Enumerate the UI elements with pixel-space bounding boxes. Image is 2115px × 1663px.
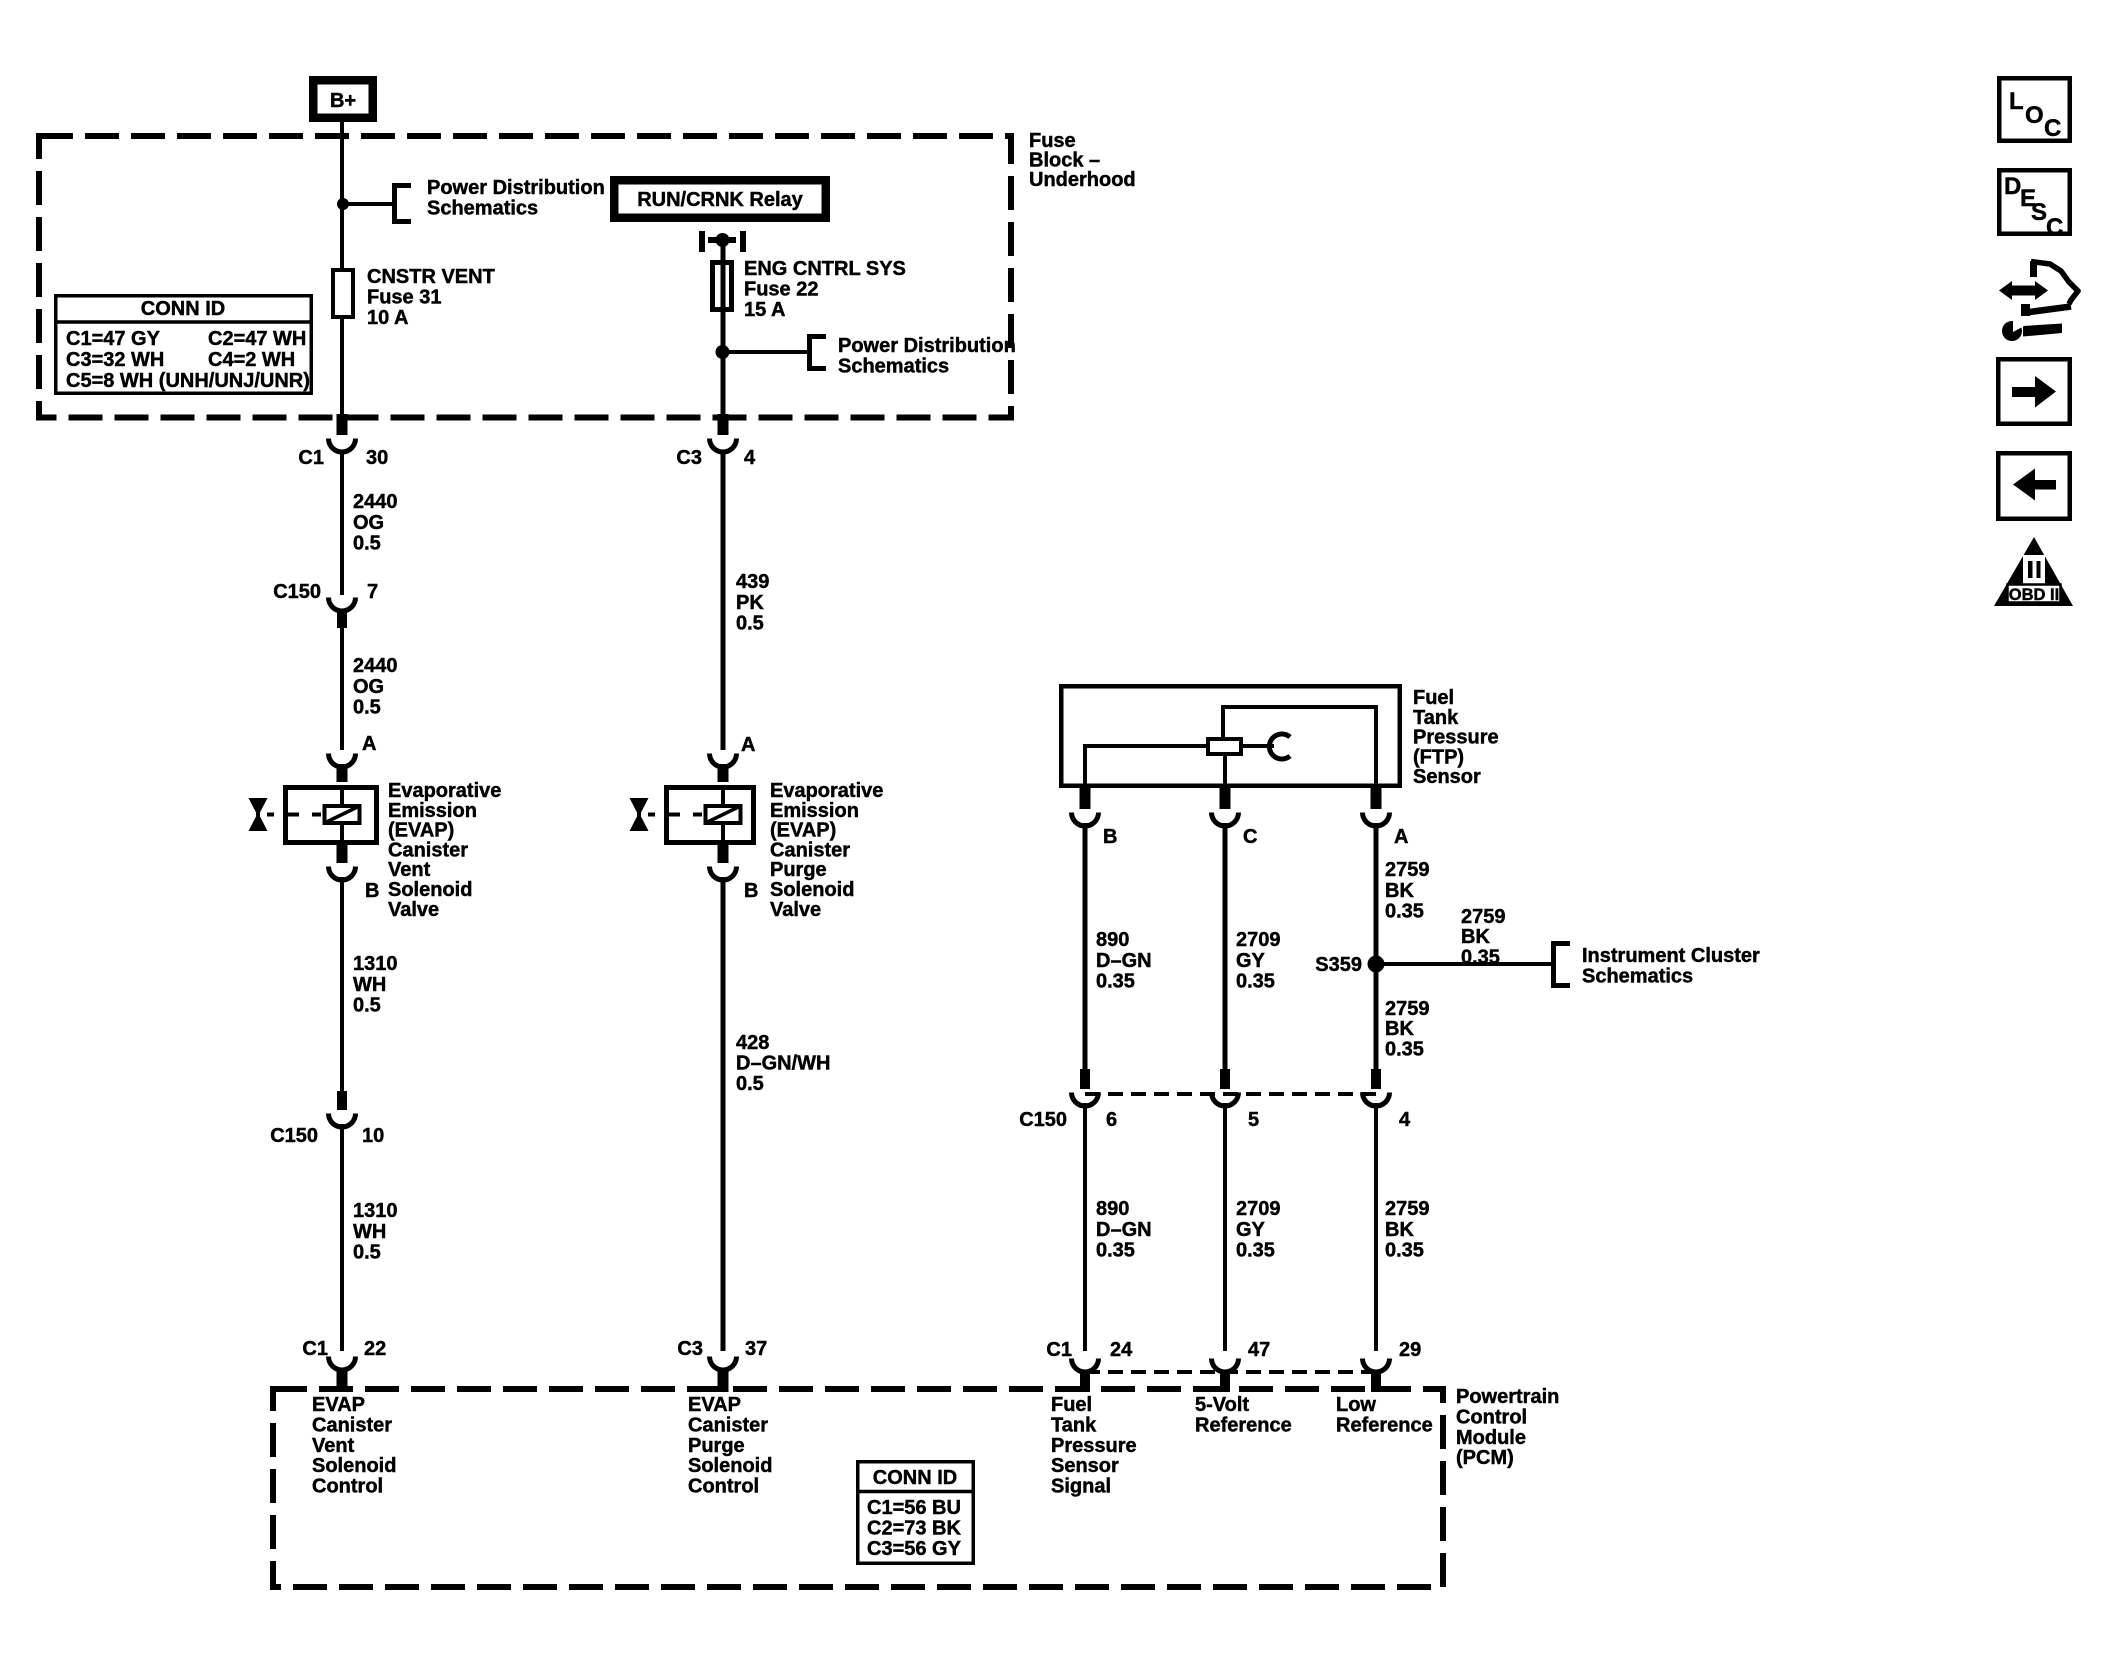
svg-text:439: 439 [736, 571, 769, 593]
svg-text:C3: C3 [677, 1338, 703, 1360]
svg-text:B: B [744, 880, 758, 902]
svg-text:WH: WH [353, 974, 386, 996]
svg-text:D–GN/WH: D–GN/WH [736, 1053, 830, 1075]
svg-text:Control: Control [688, 1476, 759, 1498]
svg-text:Canister: Canister [770, 839, 850, 861]
svg-text:C1=47 GY: C1=47 GY [66, 328, 161, 350]
svg-text:Low: Low [1336, 1394, 1376, 1416]
svg-text:BK: BK [1461, 926, 1490, 948]
svg-text:OBD II: OBD II [2009, 586, 2059, 604]
svg-text:0.5: 0.5 [736, 613, 764, 635]
svg-text:Tank: Tank [1051, 1414, 1097, 1436]
svg-text:Powertrain: Powertrain [1456, 1386, 1559, 1408]
svg-text:CNSTR VENT: CNSTR VENT [367, 266, 495, 288]
svg-text:0.35: 0.35 [1461, 946, 1500, 968]
svg-text:2440: 2440 [353, 491, 398, 513]
svg-text:C1: C1 [1046, 1339, 1072, 1361]
svg-text:10: 10 [362, 1125, 384, 1147]
svg-text:Purge: Purge [770, 859, 827, 881]
svg-text:30: 30 [366, 447, 388, 469]
svg-text:2440: 2440 [353, 655, 398, 677]
svg-text:1310: 1310 [353, 953, 398, 975]
svg-text:Underhood: Underhood [1029, 169, 1136, 191]
svg-text:D–GN: D–GN [1096, 1219, 1152, 1241]
svg-text:Control: Control [1456, 1406, 1527, 1428]
svg-text:Reference: Reference [1336, 1414, 1433, 1436]
svg-text:(FTP): (FTP) [1413, 746, 1464, 768]
svg-text:Sensor: Sensor [1413, 766, 1481, 788]
svg-text:0.35: 0.35 [1385, 901, 1424, 923]
svg-text:10 A: 10 A [367, 307, 409, 329]
svg-text:Evaporative: Evaporative [388, 780, 501, 802]
svg-text:Evaporative: Evaporative [770, 780, 883, 802]
svg-text:C2=47 WH: C2=47 WH [208, 328, 306, 350]
svg-text:C: C [1243, 826, 1257, 848]
svg-text:Valve: Valve [770, 899, 821, 921]
svg-text:4: 4 [744, 447, 756, 469]
svg-text:Fuel: Fuel [1413, 687, 1454, 709]
svg-text:4: 4 [1399, 1109, 1411, 1131]
svg-text:Signal: Signal [1051, 1476, 1111, 1498]
svg-text:BK: BK [1385, 880, 1414, 902]
svg-text:D–GN: D–GN [1096, 950, 1152, 972]
svg-text:0.35: 0.35 [1385, 1038, 1424, 1060]
svg-text:C3: C3 [676, 447, 702, 469]
svg-text:Module: Module [1456, 1427, 1526, 1449]
svg-text:CONN ID: CONN ID [873, 1467, 957, 1489]
svg-text:Schematics: Schematics [838, 355, 949, 377]
svg-text:S359: S359 [1315, 954, 1362, 976]
svg-text:Solenoid: Solenoid [688, 1455, 772, 1477]
svg-text:Schematics: Schematics [1582, 965, 1693, 987]
svg-text:Pressure: Pressure [1413, 727, 1499, 749]
svg-text:CONN ID: CONN ID [141, 298, 225, 320]
svg-text:C4=2 WH: C4=2 WH [208, 349, 295, 371]
svg-text:Emission: Emission [770, 800, 859, 822]
svg-text:428: 428 [736, 1032, 769, 1054]
svg-text:0.5: 0.5 [736, 1073, 764, 1095]
svg-text:C3=32 WH: C3=32 WH [66, 349, 164, 371]
svg-text:37: 37 [745, 1338, 767, 1360]
svg-text:B: B [365, 880, 379, 902]
svg-text:Instrument Cluster: Instrument Cluster [1582, 945, 1760, 967]
svg-text:Canister: Canister [688, 1414, 768, 1436]
svg-text:Fuse 31: Fuse 31 [367, 286, 441, 308]
svg-text:(EVAP): (EVAP) [770, 820, 836, 842]
svg-text:L: L [2009, 88, 2024, 115]
svg-text:Canister: Canister [312, 1414, 392, 1436]
svg-text:24: 24 [1110, 1339, 1133, 1361]
svg-text:BK: BK [1385, 1018, 1414, 1040]
svg-text:890: 890 [1096, 929, 1129, 951]
svg-text:0.35: 0.35 [1096, 1240, 1135, 1262]
svg-text:Solenoid: Solenoid [388, 879, 472, 901]
svg-text:C2=73 BK: C2=73 BK [867, 1517, 961, 1539]
svg-text:A: A [362, 733, 376, 755]
svg-text:5-Volt: 5-Volt [1195, 1394, 1249, 1416]
svg-text:Pressure: Pressure [1051, 1435, 1137, 1457]
svg-text:C150: C150 [1019, 1109, 1067, 1131]
svg-text:Sensor: Sensor [1051, 1455, 1119, 1477]
svg-text:2759: 2759 [1385, 859, 1430, 881]
svg-text:PK: PK [736, 592, 764, 614]
svg-text:C: C [2046, 214, 2063, 241]
svg-text:Control: Control [312, 1476, 383, 1498]
svg-text:0.5: 0.5 [353, 533, 381, 555]
svg-text:C1=56 BU: C1=56 BU [867, 1497, 961, 1519]
svg-text:Emission: Emission [388, 800, 477, 822]
svg-text:0.5: 0.5 [353, 1242, 381, 1264]
svg-text:5: 5 [1248, 1109, 1259, 1131]
svg-text:890: 890 [1096, 1198, 1129, 1220]
svg-text:Valve: Valve [388, 899, 439, 921]
svg-text:OG: OG [353, 676, 384, 698]
svg-text:0.5: 0.5 [353, 995, 381, 1017]
svg-text:0.35: 0.35 [1236, 971, 1275, 993]
svg-text:Schematics: Schematics [427, 197, 538, 219]
svg-text:C3=56 GY: C3=56 GY [867, 1538, 962, 1560]
svg-text:Reference: Reference [1195, 1414, 1292, 1436]
svg-text:Solenoid: Solenoid [770, 879, 854, 901]
svg-text:Fuse 22: Fuse 22 [744, 278, 818, 300]
svg-text:29: 29 [1399, 1339, 1421, 1361]
svg-text:C5=8 WH (UNH/UNJ/UNR): C5=8 WH (UNH/UNJ/UNR) [66, 370, 310, 392]
svg-text:RUN/CRNK Relay: RUN/CRNK Relay [637, 189, 803, 211]
svg-text:S: S [2031, 199, 2047, 226]
svg-text:2759: 2759 [1385, 998, 1430, 1020]
svg-text:0.5: 0.5 [353, 697, 381, 719]
svg-text:Solenoid: Solenoid [312, 1455, 396, 1477]
svg-text:2759: 2759 [1461, 906, 1506, 928]
svg-text:C150: C150 [273, 581, 321, 603]
svg-text:7: 7 [367, 581, 378, 603]
svg-text:Vent: Vent [388, 859, 431, 881]
svg-text:2759: 2759 [1385, 1198, 1430, 1220]
svg-text:22: 22 [364, 1338, 386, 1360]
svg-text:C150: C150 [270, 1125, 318, 1147]
svg-text:OG: OG [353, 512, 384, 534]
svg-text:(EVAP): (EVAP) [388, 820, 454, 842]
svg-text:0.35: 0.35 [1385, 1240, 1424, 1262]
svg-text:Tank: Tank [1413, 707, 1459, 729]
svg-text:GY: GY [1236, 1219, 1266, 1241]
svg-text:Vent: Vent [312, 1435, 355, 1457]
svg-text:D: D [2004, 173, 2021, 200]
svg-text:BK: BK [1385, 1219, 1414, 1241]
svg-text:GY: GY [1236, 950, 1266, 972]
svg-text:Purge: Purge [688, 1435, 745, 1457]
svg-text:ENG CNTRL SYS: ENG CNTRL SYS [744, 258, 906, 280]
svg-text:Canister: Canister [388, 839, 468, 861]
svg-text:0.35: 0.35 [1236, 1240, 1275, 1262]
svg-text:2709: 2709 [1236, 1198, 1281, 1220]
svg-text:A: A [1394, 826, 1408, 848]
svg-text:EVAP: EVAP [312, 1394, 365, 1416]
svg-text:(PCM): (PCM) [1456, 1447, 1514, 1469]
svg-text:Fuel: Fuel [1051, 1394, 1092, 1416]
svg-text:1310: 1310 [353, 1200, 398, 1222]
svg-text:O: O [2025, 102, 2044, 129]
svg-text:B+: B+ [330, 90, 356, 112]
svg-text:Power Distribution: Power Distribution [838, 335, 1016, 357]
svg-text:6: 6 [1106, 1109, 1117, 1131]
svg-text:WH: WH [353, 1221, 386, 1243]
svg-text:C: C [2044, 115, 2061, 142]
svg-text:C1: C1 [298, 447, 324, 469]
svg-text:B: B [1103, 826, 1117, 848]
svg-text:A: A [741, 734, 755, 756]
svg-text:47: 47 [1248, 1339, 1270, 1361]
svg-text:0.35: 0.35 [1096, 971, 1135, 993]
svg-text:C1: C1 [302, 1338, 328, 1360]
svg-text:15 A: 15 A [744, 299, 786, 321]
svg-text:EVAP: EVAP [688, 1394, 741, 1416]
svg-text:2709: 2709 [1236, 929, 1281, 951]
svg-text:Power Distribution: Power Distribution [427, 177, 605, 199]
